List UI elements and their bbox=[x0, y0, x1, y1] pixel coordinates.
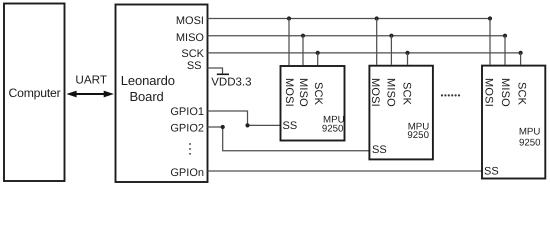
SCK drop wire to MPU1 bbox=[317, 53, 319, 65]
svg-text:SCK: SCK bbox=[181, 48, 204, 60]
svg-text:MISO: MISO bbox=[176, 32, 205, 44]
junction dot SCK-MPU2 bbox=[405, 51, 409, 55]
MOSI drop wire to MPU3 bbox=[489, 19, 491, 65]
junction dot SCK-MPU3 bbox=[519, 51, 523, 55]
MPU2 box (MPU 9250 sensor 2) bbox=[369, 66, 433, 160]
MPU3 box (MPU 9250 sensor n) bbox=[482, 66, 545, 179]
svg-text:9250: 9250 bbox=[519, 138, 541, 149]
GPIO2 wire to MPU2 SS bbox=[208, 127, 370, 151]
svg-text:MOSI: MOSI bbox=[176, 15, 204, 27]
svg-text:Computer: Computer bbox=[9, 86, 61, 100]
SCK bus wire bbox=[208, 52, 521, 54]
svg-text:9250: 9250 bbox=[407, 130, 429, 141]
svg-text:SCK: SCK bbox=[515, 82, 527, 106]
SS pull-up wire to VDD3.3 bbox=[208, 68, 223, 74]
svg-text:GPIOn: GPIOn bbox=[170, 167, 204, 179]
MISO bus wire bbox=[208, 35, 506, 37]
MPU1 box (MPU 9250 sensor 1) bbox=[281, 66, 345, 141]
junction dot GPIO1 corner bbox=[245, 123, 249, 127]
svg-text:GPIO2: GPIO2 bbox=[170, 122, 204, 134]
junction dot MISO-MPU2 bbox=[389, 34, 393, 38]
ellipsis dots (leonardo gpio) bbox=[189, 143, 191, 145]
SCK drop wire to MPU2 bbox=[407, 53, 409, 65]
svg-text:VDD3.3: VDD3.3 bbox=[211, 77, 251, 89]
svg-text:MPU: MPU bbox=[519, 127, 541, 138]
junction dot MISO-MPU1 bbox=[301, 34, 305, 38]
computer box bbox=[4, 4, 65, 182]
MOSI drop wire to MPU2 bbox=[376, 19, 378, 65]
svg-text:MOSI: MOSI bbox=[483, 78, 495, 107]
svg-text:9250: 9250 bbox=[322, 124, 344, 135]
svg-text:UART: UART bbox=[75, 73, 107, 86]
svg-text:SS: SS bbox=[187, 60, 202, 72]
svg-text:MISO: MISO bbox=[384, 78, 396, 107]
svg-text:SCK: SCK bbox=[401, 82, 413, 106]
MISO drop wire to MPU1 bbox=[302, 36, 304, 65]
svg-text:MOSI: MOSI bbox=[369, 78, 381, 107]
MOSI bus wire bbox=[208, 18, 491, 20]
MISO drop wire to MPU3 bbox=[504, 36, 506, 65]
junction dot MOSI-MPU2 bbox=[375, 16, 379, 20]
svg-text:Leonardo: Leonardo bbox=[121, 73, 175, 88]
svg-text:MISO: MISO bbox=[297, 78, 309, 107]
GPIOn wire to MPU3 SS bbox=[208, 170, 483, 172]
svg-text:SS: SS bbox=[372, 144, 387, 156]
svg-text:SS: SS bbox=[484, 166, 499, 178]
junction dot MISO-MPU3 bbox=[503, 34, 507, 38]
leonardo board box U1 bbox=[116, 5, 208, 183]
SCK drop wire to MPU3 bbox=[520, 53, 522, 65]
svg-text:SCK: SCK bbox=[312, 82, 324, 106]
svg-text:SS: SS bbox=[283, 120, 298, 132]
junction dot MOSI-MPU1 bbox=[287, 16, 291, 20]
junction dot GPIO2 corner bbox=[221, 125, 225, 129]
GPIO1 wire to MPU1 SS bbox=[208, 111, 281, 125]
svg-text:MISO: MISO bbox=[499, 78, 511, 107]
svg-text:GPIO1: GPIO1 bbox=[170, 106, 204, 118]
junction dot MOSI-MPU3 bbox=[488, 16, 492, 20]
junction dot SCK-MPU1 bbox=[316, 51, 320, 55]
MOSI drop wire to MPU1 bbox=[288, 19, 290, 66]
UART bidirectional arrow bbox=[74, 93, 106, 95]
MISO drop wire to MPU2 bbox=[390, 36, 392, 65]
ellipsis dots between MPU2 and MPU3 bbox=[441, 94, 443, 96]
svg-text:MOSI: MOSI bbox=[283, 78, 295, 107]
VDD3.3 supply bar bbox=[217, 73, 229, 75]
svg-text:Board: Board bbox=[129, 89, 163, 104]
